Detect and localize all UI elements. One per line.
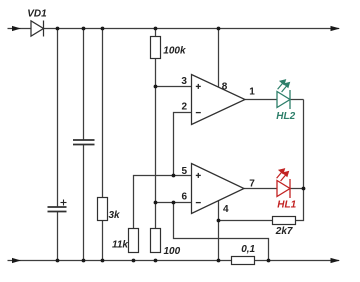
capacitor C2 (non-polar) bbox=[73, 140, 95, 145]
svg-text:8: 8 bbox=[222, 81, 228, 92]
wire 2k7 row bbox=[219, 220, 273, 222]
wire op2 output to HL1 bbox=[244, 188, 277, 190]
node pin3 / 100k bbox=[154, 85, 158, 89]
svg-text:2: 2 bbox=[182, 101, 188, 112]
wire HL2 cathode bbox=[290, 99, 304, 101]
svg-text:3: 3 bbox=[181, 76, 187, 87]
capacitor C1 (polar) bbox=[48, 207, 67, 212]
wire pin3 row bbox=[156, 86, 192, 88]
node pin6 / branch bbox=[172, 201, 176, 205]
node bottom rail / C1 bbox=[56, 259, 60, 263]
svg-text:3k: 3k bbox=[109, 210, 121, 221]
svg-text:5: 5 bbox=[182, 166, 188, 177]
wire divider vertical 100k to 100 bbox=[155, 59, 157, 229]
svg-text:4: 4 bbox=[223, 204, 229, 215]
node bottom rail / C2 bbox=[82, 259, 86, 263]
arrow input top bbox=[12, 26, 21, 31]
svg-text:0,1: 0,1 bbox=[241, 244, 255, 255]
svg-text:100k: 100k bbox=[163, 46, 186, 57]
resistor 0,1 (shunt) bbox=[232, 257, 255, 265]
node top rail / pin8 bbox=[217, 27, 221, 31]
op-amp U1.2 bbox=[192, 164, 245, 214]
wire column C2 top bbox=[83, 29, 85, 141]
svg-text:11k: 11k bbox=[112, 239, 128, 250]
resistor 2k7 bbox=[273, 217, 296, 225]
wire HL1 cathode bbox=[290, 188, 304, 190]
wire top rail right segment bbox=[44, 28, 340, 30]
svg-text:7: 7 bbox=[249, 178, 255, 189]
svg-text:HL2: HL2 bbox=[276, 111, 295, 122]
svg-text:2k7: 2k7 bbox=[275, 226, 293, 237]
svg-text:100: 100 bbox=[164, 246, 181, 257]
wire pin2 row bbox=[174, 113, 192, 176]
wire bottom rail right of shunt bbox=[255, 260, 340, 262]
node bottom rail / branch bbox=[267, 259, 271, 263]
node top rail / 100k bbox=[154, 27, 158, 31]
wire top rail left segment bbox=[8, 28, 32, 30]
wire 100k top lead bbox=[155, 29, 157, 37]
wire pin6 row bbox=[156, 202, 192, 204]
node pin2 / pin5 bbox=[172, 174, 176, 178]
wire bottom rail left of shunt bbox=[8, 260, 232, 262]
wire left column C1 bottom bbox=[57, 212, 59, 261]
op-amp U1.1 bbox=[192, 75, 246, 125]
wire pin6 branch to shunt right bbox=[174, 203, 269, 261]
svg-text:6: 6 bbox=[182, 192, 188, 203]
resistor 3k bbox=[98, 198, 108, 221]
svg-text:VD1: VD1 bbox=[27, 9, 47, 20]
arrow output top bbox=[331, 26, 341, 31]
node top rail / C1 bbox=[56, 27, 60, 31]
resistor 100k bbox=[151, 37, 161, 59]
node HL1 cathode bbox=[302, 187, 306, 191]
node top rail / 3k bbox=[101, 27, 105, 31]
wire pin8 bbox=[218, 29, 220, 89]
svg-text:1: 1 bbox=[249, 87, 255, 98]
node bottom rail / 11k bbox=[132, 259, 136, 263]
wire column 3k top bbox=[102, 29, 104, 198]
node bottom rail / 100 bbox=[154, 259, 158, 263]
node pin6 / divider bbox=[154, 201, 158, 205]
wire op1 output to HL2 bbox=[245, 99, 277, 101]
arrow output bottom bbox=[331, 258, 341, 263]
LED HL2 bbox=[277, 90, 290, 109]
arrow input bottom bbox=[12, 258, 21, 263]
plus sign of polar capacitor bbox=[61, 200, 67, 206]
diode VD1 bbox=[31, 21, 44, 37]
resistor 100 bbox=[151, 229, 161, 253]
node bottom rail / 3k bbox=[101, 259, 105, 263]
resistor 11k bbox=[129, 229, 139, 253]
node pin4 / 2k7 bbox=[217, 219, 221, 223]
node bottom rail / pin4 bbox=[217, 259, 221, 263]
wire pin5 row to 11k bbox=[134, 176, 192, 229]
wire column 3k bottom bbox=[102, 221, 104, 261]
wire left column C1 top bbox=[57, 29, 59, 208]
LED HL1 bbox=[277, 179, 290, 198]
LED HL1 arrows bbox=[277, 169, 289, 181]
LED HL2 arrows bbox=[278, 80, 290, 92]
wire pin4 bbox=[218, 200, 220, 261]
svg-text:HL1: HL1 bbox=[277, 200, 296, 211]
wire 2k7 right to cathode column bbox=[296, 100, 304, 221]
wire column C2 bottom bbox=[83, 145, 85, 261]
node top rail / C2 bbox=[82, 27, 86, 31]
